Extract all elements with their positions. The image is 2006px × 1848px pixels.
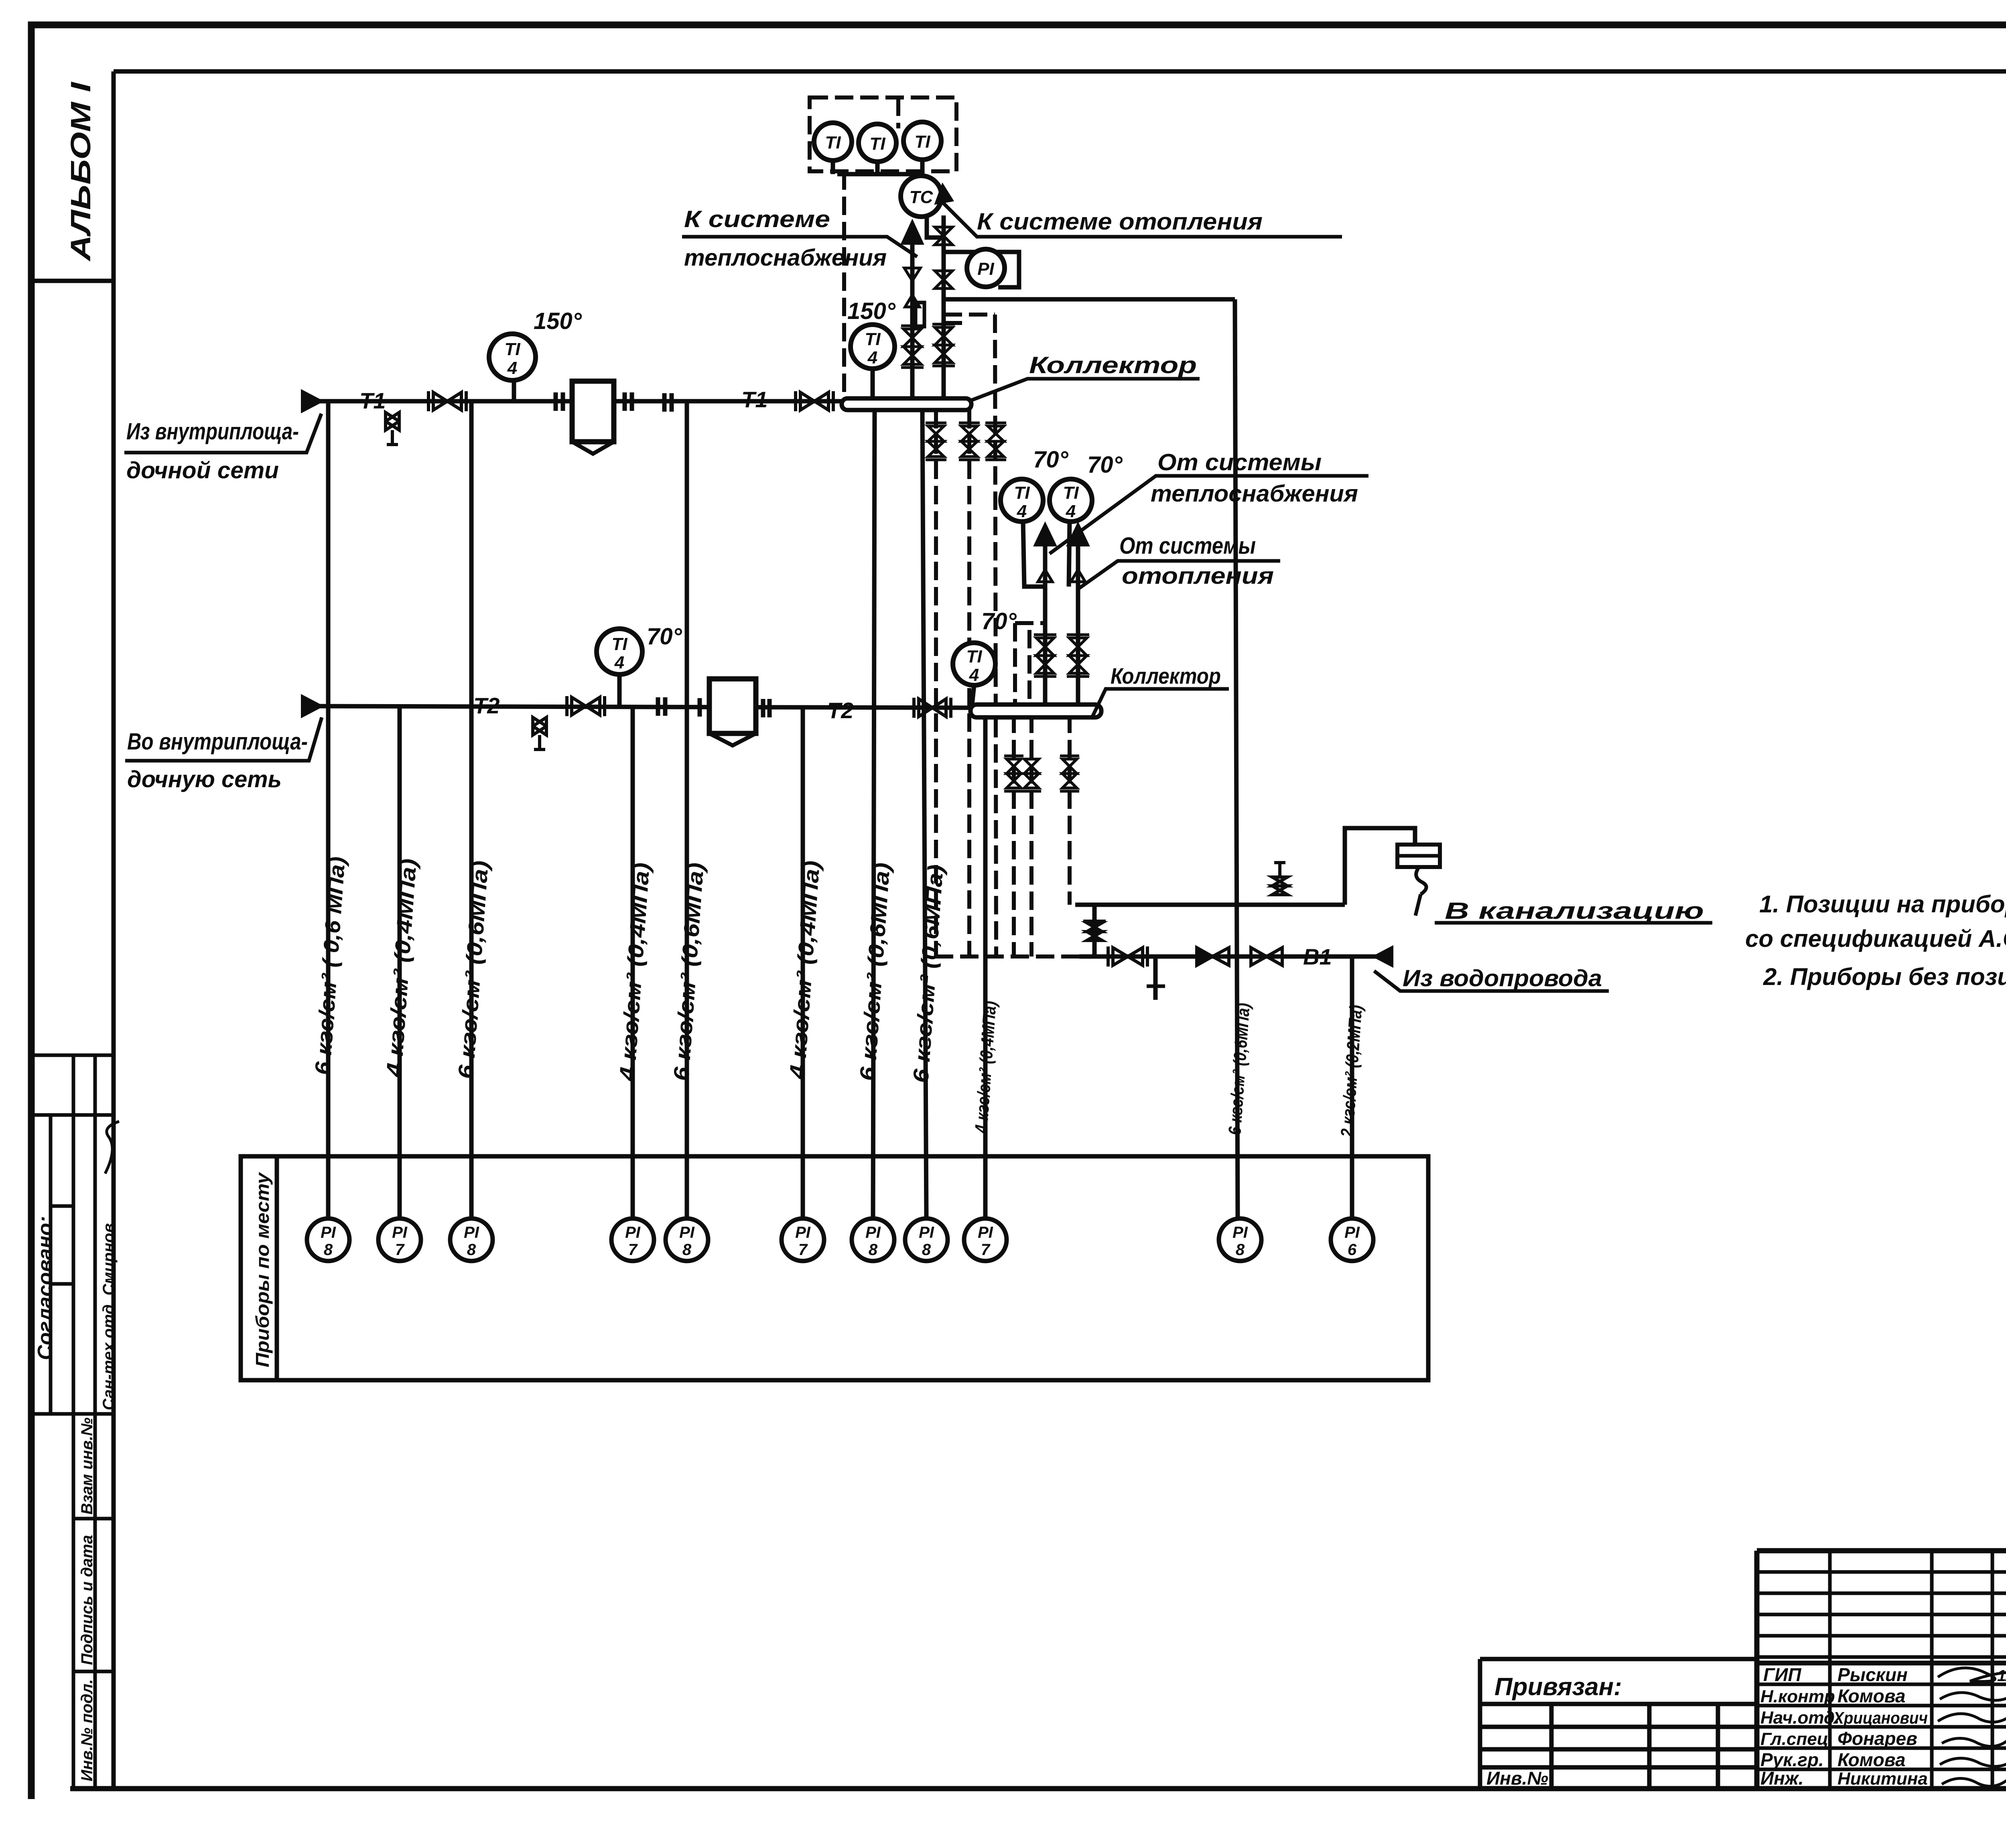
svg-text:150°: 150° xyxy=(534,308,582,334)
svg-text:PI: PI xyxy=(464,1224,479,1241)
svg-text:TI: TI xyxy=(966,647,982,666)
svg-text:АЛЬБОМ I: АЛЬБОМ I xyxy=(65,81,96,262)
svg-text:4: 4 xyxy=(1017,502,1027,521)
svg-text:8: 8 xyxy=(1236,1241,1245,1259)
svg-text:Согласовано:: Согласовано: xyxy=(34,1216,57,1360)
svg-text:PI: PI xyxy=(978,1224,993,1241)
svg-text:Взам инв.№: Взам инв.№ xyxy=(78,1417,96,1515)
svg-text:В канализацию: В канализацию xyxy=(1445,898,1704,924)
svg-text:4: 4 xyxy=(614,653,624,672)
svg-text:4: 4 xyxy=(969,665,979,685)
svg-text:6: 6 xyxy=(1348,1241,1357,1259)
svg-text:дочную сеть: дочную сеть xyxy=(127,766,282,792)
svg-text:8: 8 xyxy=(467,1241,476,1259)
svg-text:От системы: От системы xyxy=(1157,449,1322,475)
svg-text:8: 8 xyxy=(324,1241,333,1259)
svg-text:TI: TI xyxy=(825,133,841,152)
svg-text:8: 8 xyxy=(869,1241,878,1259)
svg-text:TI: TI xyxy=(1014,483,1030,503)
svg-text:7: 7 xyxy=(395,1241,405,1259)
svg-text:PI: PI xyxy=(977,259,994,279)
svg-text:2. Приборы без позиций заказыв: 2. Приборы без позиций заказываются в ра… xyxy=(1763,963,2006,990)
svg-text:70°: 70° xyxy=(1033,447,1069,473)
svg-text:8: 8 xyxy=(682,1241,692,1259)
svg-text:PI: PI xyxy=(1344,1224,1360,1241)
svg-text:Подпись и дата: Подпись и дата xyxy=(78,1535,96,1665)
svg-text:Инв.№: Инв.№ xyxy=(1486,1768,1548,1789)
svg-text:PI: PI xyxy=(321,1224,336,1241)
svg-text:70°: 70° xyxy=(981,608,1017,634)
svg-text:Хрицанович: Хрицанович xyxy=(1833,1708,1928,1727)
svg-text:Рыскин: Рыскин xyxy=(1837,1664,1908,1685)
svg-text:70°: 70° xyxy=(647,623,682,650)
svg-text:Коллектор: Коллектор xyxy=(1111,663,1221,688)
svg-text:дочной сети: дочной сети xyxy=(126,457,279,483)
svg-text:теплоснабжения: теплоснабжения xyxy=(1151,481,1358,507)
svg-text:Т1: Т1 xyxy=(741,387,767,412)
svg-text:Нач.отд.: Нач.отд. xyxy=(1760,1708,1840,1728)
svg-text:PI: PI xyxy=(392,1224,408,1241)
svg-text:Во внутриплоща-: Во внутриплоща- xyxy=(127,729,308,755)
svg-text:Инж.: Инж. xyxy=(1760,1768,1804,1789)
svg-text:150°: 150° xyxy=(847,298,896,324)
svg-text:8: 8 xyxy=(922,1241,931,1259)
svg-text:Т2: Т2 xyxy=(473,693,499,718)
svg-text:Комова: Комова xyxy=(1837,1749,1906,1770)
svg-text:TI: TI xyxy=(865,329,881,349)
svg-text:Никитина: Никитина xyxy=(1837,1769,1928,1789)
svg-text:Коллектор: Коллектор xyxy=(1029,352,1197,378)
svg-text:Из водопровода: Из водопровода xyxy=(1403,965,1602,991)
svg-text:К системе отопления: К системе отопления xyxy=(977,209,1263,235)
svg-text:7: 7 xyxy=(798,1241,808,1259)
svg-text:4: 4 xyxy=(507,358,517,378)
svg-text:со спецификацией А.С01: со спецификацией А.С01 xyxy=(1745,925,2006,952)
svg-text:Сан-тех.отд. Смирнов: Сан-тех.отд. Смирнов xyxy=(100,1223,118,1410)
svg-text:Н.контр: Н.контр xyxy=(1760,1687,1835,1706)
svg-text:Из внутриплоща-: Из внутриплоща- xyxy=(126,418,299,445)
svg-text:TI: TI xyxy=(1063,483,1079,503)
svg-text:70°: 70° xyxy=(1087,452,1123,478)
svg-text:теплоснабжения: теплоснабжения xyxy=(684,245,887,271)
svg-text:TC: TC xyxy=(910,187,934,207)
svg-text:PI: PI xyxy=(625,1224,641,1241)
svg-text:Приборы по месту: Приборы по месту xyxy=(252,1172,273,1367)
svg-text:В1: В1 xyxy=(1303,944,1332,969)
svg-text:Гл.спец.: Гл.спец. xyxy=(1760,1729,1833,1749)
svg-text:11.84: 11.84 xyxy=(1997,1667,2006,1685)
svg-text:Т1: Т1 xyxy=(359,388,386,413)
svg-text:7: 7 xyxy=(628,1241,638,1259)
svg-text:TI: TI xyxy=(504,339,520,359)
svg-text:7: 7 xyxy=(981,1241,991,1259)
svg-text:К системе: К системе xyxy=(684,206,830,232)
svg-text:PI: PI xyxy=(795,1224,811,1241)
svg-text:PI: PI xyxy=(865,1224,881,1241)
svg-text:4: 4 xyxy=(867,348,877,368)
svg-text:Рук.гр.: Рук.гр. xyxy=(1760,1749,1824,1770)
svg-text:Т2: Т2 xyxy=(827,698,853,723)
svg-text:TI: TI xyxy=(611,634,627,654)
svg-text:От системы: От системы xyxy=(1119,533,1256,559)
svg-text:Привязан:: Привязан: xyxy=(1494,1673,1622,1701)
svg-text:PI: PI xyxy=(1232,1224,1248,1241)
svg-text:Инв.№ подл.: Инв.№ подл. xyxy=(78,1679,96,1781)
svg-text:Комова: Комова xyxy=(1837,1686,1906,1706)
svg-text:PI: PI xyxy=(919,1224,934,1241)
svg-text:TI: TI xyxy=(914,132,930,152)
svg-text:4: 4 xyxy=(1066,502,1076,521)
svg-text:ГИП: ГИП xyxy=(1763,1664,1801,1685)
svg-text:Фонарев: Фонарев xyxy=(1837,1728,1917,1749)
svg-text:отопления: отопления xyxy=(1122,563,1274,589)
svg-text:PI: PI xyxy=(679,1224,695,1241)
svg-text:1. Позиции на приборы указаны: 1. Позиции на приборы указаны в соответс… xyxy=(1759,891,2006,918)
svg-text:TI: TI xyxy=(869,134,885,154)
